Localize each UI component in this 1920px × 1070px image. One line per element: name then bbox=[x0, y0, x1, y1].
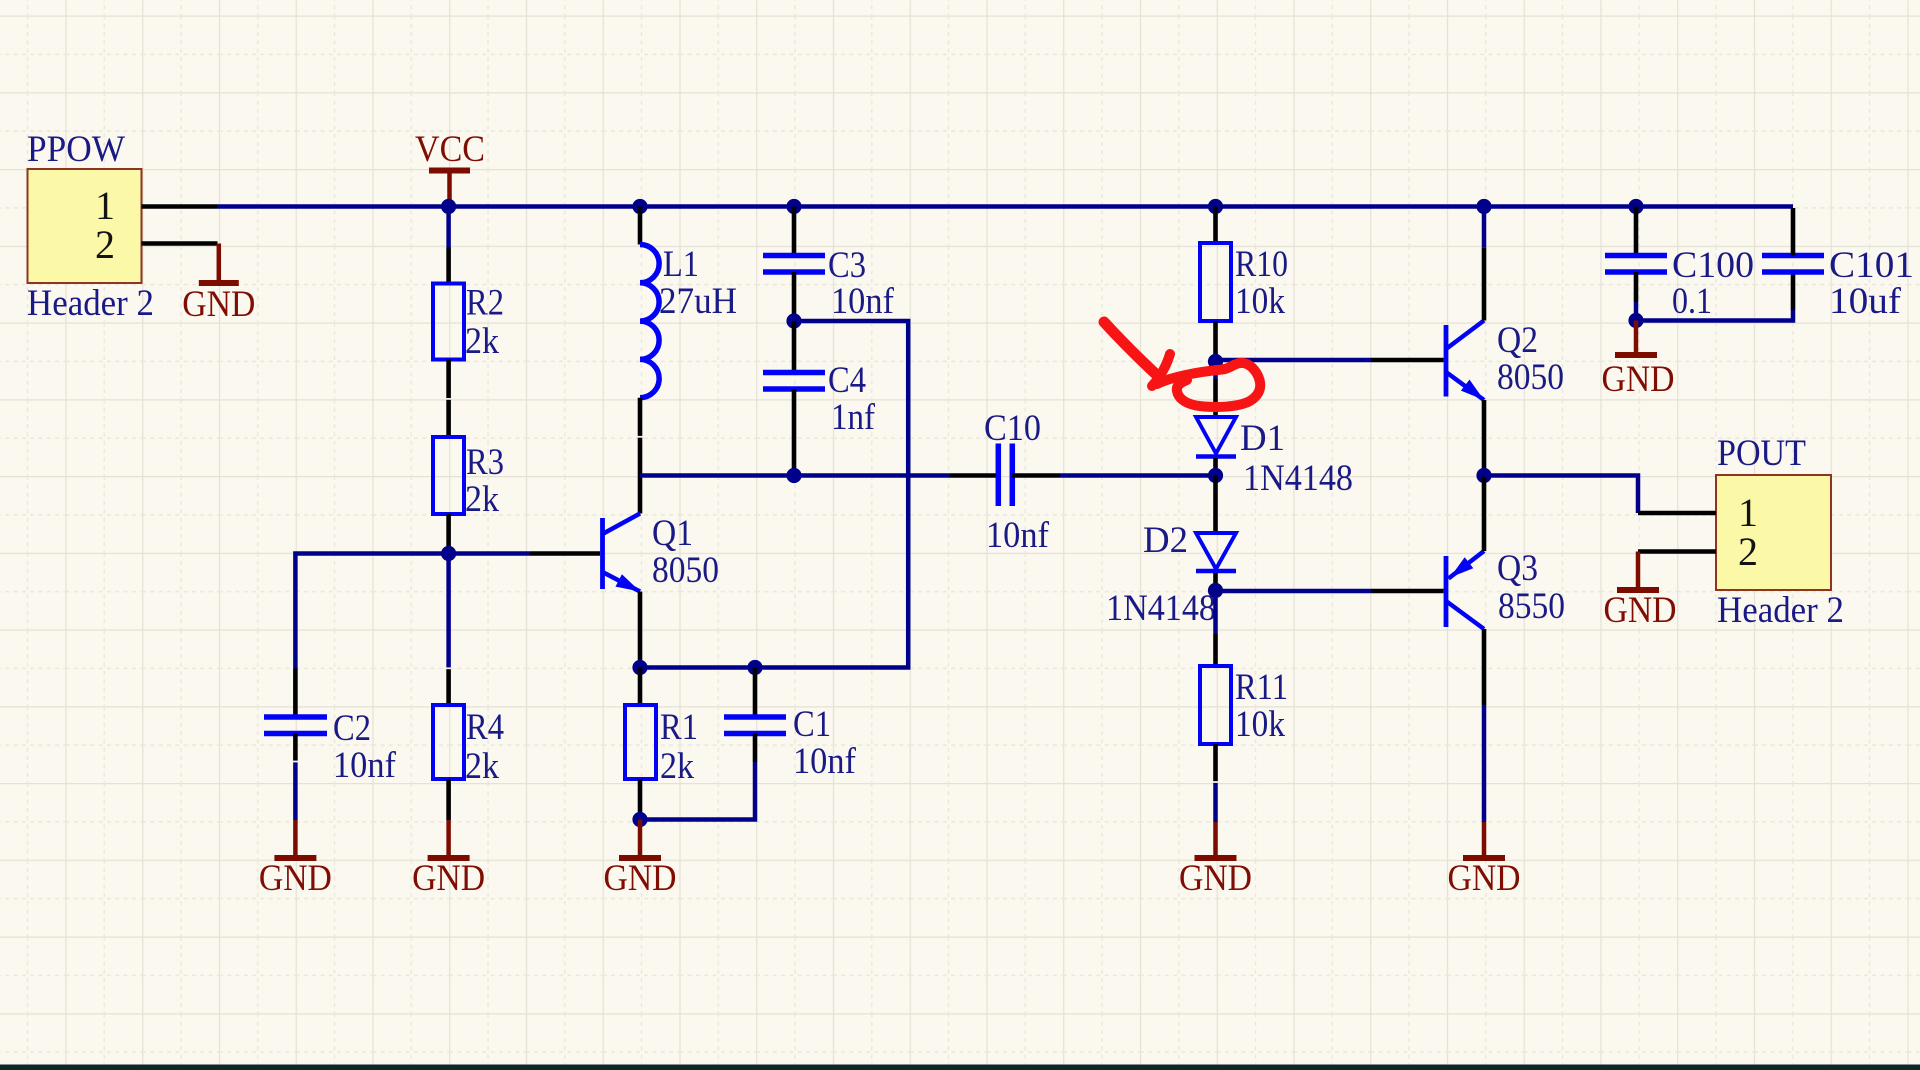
svg-text:1N4148: 1N4148 bbox=[1243, 457, 1353, 498]
pin D1 anode bbox=[1213, 379, 1218, 417]
svg-text:C3: C3 bbox=[828, 244, 866, 285]
diode D2 bbox=[1106, 519, 1236, 628]
wire C10 to D1 node bbox=[1060, 473, 1216, 478]
svg-text:10nf: 10nf bbox=[831, 280, 895, 321]
wire Q3 collector to GND bbox=[1482, 705, 1487, 822]
svg-text:2: 2 bbox=[95, 222, 115, 267]
node emitter row at R1 bbox=[632, 660, 647, 675]
svg-text:10nf: 10nf bbox=[986, 514, 1050, 555]
pin R4 bottom bbox=[446, 779, 451, 820]
bottom window edge bar bbox=[0, 1065, 1920, 1070]
resistor R4 bbox=[433, 705, 504, 786]
svg-text:1N4148: 1N4148 bbox=[1106, 587, 1216, 628]
svg-text:Q3: Q3 bbox=[1497, 547, 1538, 588]
pin C2 bottom bbox=[293, 734, 298, 763]
pin Q2 collector bbox=[1482, 247, 1487, 320]
wire D1 top bbox=[1213, 362, 1218, 380]
ground at R1 bbox=[604, 820, 677, 899]
wire collector row bbox=[640, 473, 950, 478]
wire R11 to GND bbox=[1213, 782, 1218, 822]
capacitor C101 bbox=[1762, 244, 1914, 321]
svg-text:2k: 2k bbox=[660, 745, 695, 786]
pin C4 bottom bbox=[792, 389, 797, 476]
svg-text:0.1: 0.1 bbox=[1672, 280, 1712, 321]
svg-text:10k: 10k bbox=[1235, 280, 1286, 321]
transistor Q3 bbox=[1446, 547, 1565, 629]
svg-text:GND: GND bbox=[604, 857, 677, 898]
wire feedback top bbox=[640, 321, 908, 668]
wire node to Q3 base bbox=[1216, 589, 1372, 594]
inductor L1 bbox=[640, 243, 737, 398]
svg-text:D2: D2 bbox=[1143, 519, 1188, 560]
node C100/C101 bottom bbox=[1628, 313, 1643, 328]
wire VCC bus bbox=[218, 204, 1794, 209]
svg-text:D1: D1 bbox=[1240, 417, 1285, 458]
pin Q3 emitter bbox=[1482, 476, 1487, 552]
svg-text:27uH: 27uH bbox=[659, 280, 737, 321]
wire C100 bottom node bbox=[1634, 302, 1639, 321]
svg-text:1nf: 1nf bbox=[831, 396, 876, 437]
svg-text:10k: 10k bbox=[1235, 703, 1286, 744]
svg-text:10nf: 10nf bbox=[793, 740, 857, 781]
svg-text:Header 2: Header 2 bbox=[1717, 589, 1844, 630]
capacitor C3 pin top bbox=[792, 207, 797, 256]
svg-text:2k: 2k bbox=[465, 478, 500, 519]
ground at R11 bbox=[1179, 822, 1252, 898]
annotation red arrow bbox=[1104, 322, 1260, 407]
pin C10 left bbox=[950, 473, 998, 478]
svg-text:R4: R4 bbox=[466, 706, 504, 747]
pin 1 of POUT bbox=[1638, 490, 1758, 535]
svg-text:VCC: VCC bbox=[415, 128, 485, 169]
svg-text:2k: 2k bbox=[465, 745, 500, 786]
svg-text:2: 2 bbox=[1738, 529, 1758, 574]
svg-text:GND: GND bbox=[412, 857, 485, 898]
pin R4 top bbox=[446, 669, 451, 706]
svg-text:8050: 8050 bbox=[652, 549, 719, 590]
ground at C2 bbox=[259, 820, 332, 898]
ground at Q3 bbox=[1448, 822, 1521, 898]
svg-text:C4: C4 bbox=[828, 359, 866, 400]
header POUT box bbox=[1716, 432, 1844, 630]
pin L1 top bbox=[638, 207, 643, 245]
pin C2 top bbox=[293, 669, 298, 718]
svg-text:C101: C101 bbox=[1829, 244, 1914, 285]
svg-text:GND: GND bbox=[1448, 857, 1521, 898]
svg-text:GND: GND bbox=[259, 857, 332, 898]
node VCC junction at R2 column bbox=[441, 199, 456, 214]
pin R10 top bbox=[1213, 207, 1218, 244]
pin L1 bottom / wire to Q1 collector bbox=[638, 398, 643, 514]
pin 2 of PPOW bbox=[95, 222, 218, 267]
node base row at R3/R4 bbox=[441, 546, 456, 561]
node bus junction at Q2 column bbox=[1476, 199, 1491, 214]
svg-text:8550: 8550 bbox=[1498, 585, 1565, 626]
svg-text:C2: C2 bbox=[333, 707, 371, 748]
svg-text:GND: GND bbox=[1602, 358, 1675, 399]
resistor R2 bbox=[433, 282, 504, 362]
power port VCC bbox=[415, 128, 485, 207]
ground at C100 bbox=[1602, 321, 1675, 400]
svg-text:8050: 8050 bbox=[1497, 356, 1564, 397]
svg-text:10uf: 10uf bbox=[1829, 280, 1902, 321]
pin 1 of PPOW bbox=[95, 183, 218, 228]
resistor R3 bbox=[433, 437, 504, 519]
node output bbox=[1476, 468, 1491, 483]
pin Q2 emitter bbox=[1482, 400, 1487, 476]
svg-text:Q1: Q1 bbox=[652, 512, 693, 553]
node C3/C4 junction bbox=[786, 313, 801, 328]
node emitter row at C1 bbox=[747, 660, 762, 675]
wire base row to C2 branch bbox=[295, 554, 448, 669]
pin C1 bottom bbox=[753, 734, 758, 763]
pin D2 cathode bbox=[1213, 573, 1218, 591]
pin C101 top bbox=[1791, 208, 1796, 256]
svg-text:GND: GND bbox=[1604, 589, 1677, 630]
pin C100 top bbox=[1634, 207, 1639, 256]
capacitor C1 bbox=[724, 703, 857, 781]
pin C1 top bbox=[753, 668, 758, 718]
node D2/R11/Q3 base bbox=[1208, 583, 1223, 598]
svg-text:C100: C100 bbox=[1672, 244, 1754, 285]
svg-text:C1: C1 bbox=[793, 703, 831, 744]
pin end ticks bbox=[292, 398, 1218, 783]
svg-text:2k: 2k bbox=[465, 320, 500, 361]
pin C3 bottom bbox=[792, 272, 797, 321]
node R1 bottom bbox=[632, 812, 647, 827]
svg-text:Header 2: Header 2 bbox=[27, 282, 154, 323]
ground at PPOW pin2 bbox=[182, 244, 255, 325]
pin C4 top bbox=[792, 321, 797, 373]
wire C100 to C101 bottom bbox=[1636, 310, 1793, 321]
pin R11 top bbox=[1213, 634, 1218, 666]
capacitor C100 bbox=[1605, 244, 1754, 321]
svg-text:R2: R2 bbox=[466, 282, 504, 323]
pin Q1 base bbox=[530, 551, 600, 556]
header PPOW box bbox=[27, 128, 154, 323]
wire bus to R2 bbox=[446, 207, 451, 248]
transistor Q2 bbox=[1446, 319, 1564, 400]
resistor R10 bbox=[1200, 243, 1288, 321]
svg-text:GND: GND bbox=[1179, 857, 1252, 898]
pin 2 of POUT bbox=[1638, 529, 1758, 574]
capacitor C3 bbox=[763, 244, 895, 321]
wire R11 top bbox=[1213, 591, 1218, 635]
pin C100 bottom bbox=[1634, 272, 1639, 302]
node bus junction at C100 column bbox=[1628, 199, 1643, 214]
svg-text:R1: R1 bbox=[660, 706, 698, 747]
node bus junction at C3 column bbox=[786, 199, 801, 214]
pin R11 bottom bbox=[1213, 744, 1218, 782]
svg-text:L1: L1 bbox=[663, 243, 699, 284]
svg-text:POUT: POUT bbox=[1717, 432, 1806, 473]
svg-text:R3: R3 bbox=[466, 441, 504, 482]
svg-text:R10: R10 bbox=[1235, 243, 1288, 284]
transistor Q1 bbox=[603, 512, 720, 592]
diode D1 bbox=[1196, 417, 1353, 498]
svg-text:R11: R11 bbox=[1235, 666, 1288, 707]
wire base row to Q1 bbox=[449, 551, 530, 556]
pin Q1 emitter wire down bbox=[638, 592, 643, 668]
wire C2 to GND bbox=[293, 762, 298, 820]
pin D1 cathode bbox=[1213, 458, 1218, 476]
wire C1 bottom to R1 bottom bbox=[640, 762, 755, 820]
wire base row R4 top bbox=[446, 554, 451, 669]
node bus junction at R10 column bbox=[1208, 199, 1223, 214]
pin R1 top bbox=[638, 668, 643, 706]
pin R2 bottom / pin R3 top bbox=[446, 360, 451, 438]
svg-text:PPOW: PPOW bbox=[27, 128, 126, 169]
pin R1 bottom bbox=[638, 779, 643, 820]
capacitor C4 bbox=[763, 359, 876, 437]
pin R2 top bbox=[446, 248, 451, 284]
svg-text:C10: C10 bbox=[984, 407, 1041, 448]
ground at R4 bbox=[412, 820, 485, 898]
pin Q2 base bbox=[1371, 358, 1444, 363]
svg-text:GND: GND bbox=[182, 283, 255, 324]
pin Q3 base bbox=[1371, 589, 1444, 594]
node C4 bottom junction bbox=[786, 468, 801, 483]
pin R10 bottom bbox=[1213, 321, 1218, 362]
node D1/D2/C10 bbox=[1208, 468, 1223, 483]
capacitor C2 bbox=[264, 707, 397, 785]
svg-text:Q2: Q2 bbox=[1497, 319, 1538, 360]
node R10/D1/Q2 base bbox=[1208, 354, 1223, 369]
wire node to Q2 base bbox=[1216, 358, 1372, 363]
pin D2 anode bbox=[1213, 476, 1218, 533]
svg-text:10nf: 10nf bbox=[333, 744, 397, 785]
pin R3 bottom bbox=[446, 514, 451, 554]
wire output to POUT bbox=[1484, 476, 1638, 514]
resistor R11 bbox=[1200, 666, 1288, 744]
pin C10 right bbox=[1012, 473, 1060, 478]
capacitor C10 bbox=[984, 407, 1050, 555]
ground at POUT pin2 bbox=[1604, 552, 1677, 631]
pin Q3 collector bbox=[1482, 629, 1487, 705]
node bus junction at L1 column bbox=[632, 199, 647, 214]
wire bus to Q2 collector bbox=[1482, 207, 1487, 248]
pin C101 bottom bbox=[1791, 272, 1796, 310]
resistor R1 bbox=[625, 705, 698, 786]
